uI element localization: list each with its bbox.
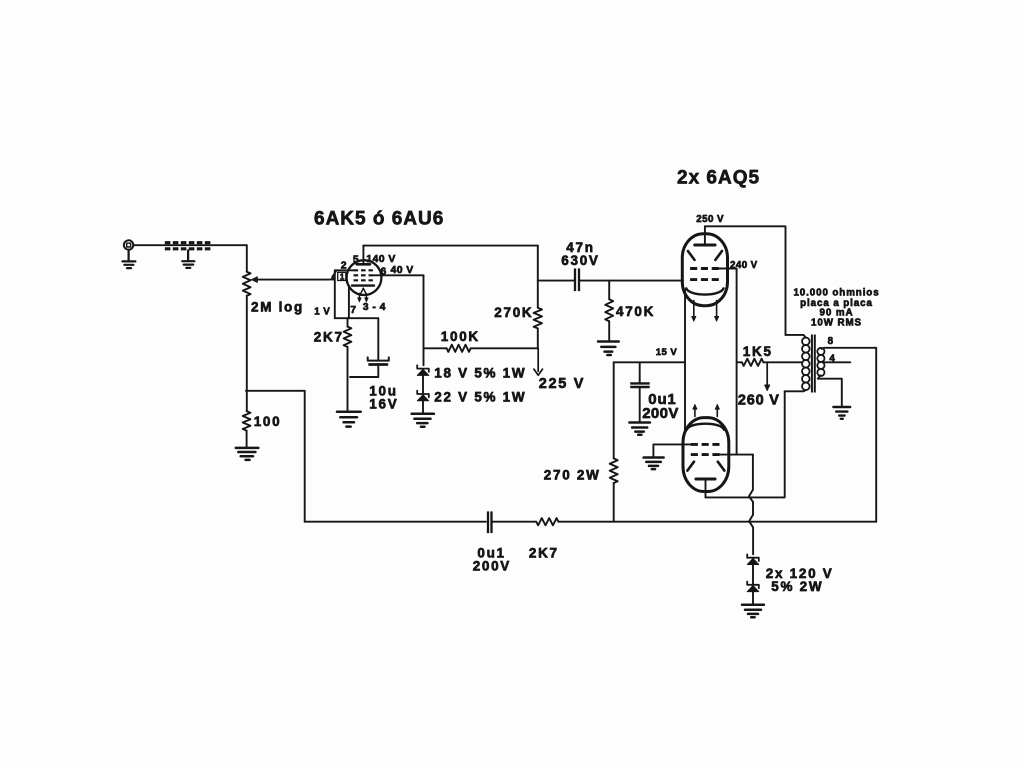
svg-text:100: 100 [254,414,282,429]
V3 cathode arc [687,424,724,430]
V2 control grid (dashed) [690,278,719,281]
T1 secondary bottom lead [818,375,842,405]
shielded cable (dashed shield) [165,243,212,249]
svg-text:10W RMS: 10W RMS [811,318,862,329]
V2 screen grid (dashed) [690,267,719,270]
V3 screen wire [720,454,753,456]
screen zener line with crossover jogs [749,455,753,555]
10u top lead [377,318,379,360]
node junction wire to bus corner [246,390,305,392]
ground (cable shield) [182,250,194,268]
ground (V3 grid) [644,458,664,470]
svg-text:225 V: 225 V [539,376,585,392]
wire to potentiometer top [246,245,248,272]
T1 secondary 4-ohm tap [823,361,851,363]
feedback wire from 8-ohm tap [875,348,877,522]
wire pin2 down to cathode node [334,270,336,318]
wire pot bottom down [246,296,248,411]
V3 grid wire to ground [653,444,690,456]
svg-text:8: 8 [828,336,834,347]
wire 2K7 to ground [347,347,349,411]
resistor 270K [534,308,542,329]
T1 secondary 8-ohm lead [822,348,877,349]
svg-text:5: 5 [353,254,359,266]
wire plate to 270K node [363,245,537,247]
V3 plate bar [696,478,715,481]
V3 screen grid (dashed) [691,453,720,456]
tube V2 6AQ5 upper envelope [682,234,727,306]
T1 secondary winding [817,348,824,376]
V3 beam plates [687,462,724,471]
wire zener to ground [752,592,754,604]
resistor 2K7 (cathode) [344,327,352,347]
wire 240V screen line down [736,269,738,455]
T1 core [812,335,815,393]
svg-text:250 V: 250 V [696,214,724,225]
svg-text:10.000 ohmnios: 10.000 ohmnios [793,288,879,299]
wire between zeners [422,375,424,393]
wire 47n to grid of upper 6AQ5 [580,280,683,282]
svg-text:1K5: 1K5 [743,344,773,359]
V1 heater pin arrows 3-4 [358,294,369,303]
ground (input jack) [122,250,135,268]
svg-text:270 2W: 270 2W [544,468,601,483]
svg-text:200V: 200V [642,405,679,422]
zener 120 V lower [747,582,759,592]
capacitor 10u 16V top plate [368,357,389,360]
svg-text:6AK5 ó 6AU6: 6AK5 ó 6AU6 [314,209,444,230]
svg-text:2K7: 2K7 [529,546,559,561]
svg-text:2x 6AQ5: 2x 6AQ5 [677,168,760,189]
wire between 120V zeners [752,565,754,585]
V1 plate lead pin 5 [362,246,364,265]
svg-text:270K: 270K [494,305,533,320]
V3 plate lead [705,479,707,497]
V3 control grid (dashed) [691,443,720,446]
270 2W to bus [613,483,615,522]
V1 heater chevron [360,288,367,295]
ground (470K) [598,342,619,356]
resistor 470K [605,299,613,321]
svg-text:100K: 100K [441,329,480,344]
270K bottom lead [537,328,539,348]
wire 1K5 to primary centre tap [763,361,802,363]
V2 cathode arc [686,288,723,294]
tube V1 6AK5 envelope [347,260,382,295]
svg-text:3 - 4: 3 - 4 [363,301,386,313]
10u bottom lead [350,366,378,377]
V2 plate lead [704,226,706,245]
capacitor 0u1 200V (cathode) top lead [639,362,641,382]
wire input to pot [133,244,247,246]
wire plate node down to 270K [537,246,539,308]
input jack J1 [124,240,133,249]
arrow 260 V supply [765,362,770,390]
svg-text:5% 2W: 5% 2W [771,579,823,594]
resistor 1K5 [742,359,764,366]
T1 primary winding [802,338,810,391]
ground (zener stack) [412,414,434,427]
svg-text:630V: 630V [561,253,599,268]
capacitor 0u1 200V (cathode) plates [630,383,650,387]
svg-text:2: 2 [341,259,347,271]
V1 grid rows (dashed) [354,270,373,280]
svg-text:40 V: 40 V [391,264,414,276]
V2 screen lead to 240V line [719,268,737,270]
capacitor 0u1 200V (feedback) [488,511,492,533]
470K top lead [608,281,610,300]
grid arrow into pin 1 [330,272,336,281]
V1 cathode lead pin 7 [348,286,350,319]
bus wire 2K7 to right end [558,521,876,523]
wire zener to ground [422,401,424,413]
svg-text:260 V: 260 V [738,392,780,408]
wire V3 plate to transformer primary bottom [706,391,785,497]
zener 18 V 5% 1W [417,365,429,375]
ground (120V zeners) [742,605,764,618]
svg-text:200V: 200V [473,559,511,574]
capacitor 47n 630V [575,268,579,291]
resistor 270 2W lead [613,362,615,458]
V2 beam plates [688,251,722,260]
bus wire cap to 2K7 [492,521,536,523]
T1 primary top lead [786,335,806,338]
wire down to feedback bus [304,391,306,522]
V2 heater leads with arrows [692,301,719,322]
resistor 270 2W [610,458,618,483]
470K bottom lead [608,321,610,340]
V1 screen wire pin 6 [373,274,424,276]
svg-text:18 V 5% 1W: 18 V 5% 1W [434,365,526,380]
svg-text:2K7: 2K7 [314,330,344,345]
cathode node wire [335,317,379,319]
ground (cathode 0u1) [629,423,650,435]
100K leads [424,347,538,349]
V1 plate bar [357,263,370,266]
V1 pin 2 stub [335,269,354,271]
arrow 225 V supply [534,348,543,375]
V2/V3 cathode link wire [684,290,686,430]
zener 120 V upper [747,554,759,564]
V1 cathode bar [352,284,374,286]
potentiometer 2M log [243,272,251,296]
ground (2K7 cathode) [337,412,361,427]
wire 270K node to 47n [538,280,575,282]
resistor 2K7 (feedback) [536,518,558,525]
transformer T1 label [793,288,879,329]
ground (secondary) [833,407,850,419]
svg-text:22 V 5% 1W: 22 V 5% 1W [434,390,526,405]
svg-text:15 V: 15 V [656,347,678,358]
svg-text:4: 4 [829,354,835,365]
wire V2 plate to transformer primary top [705,226,786,335]
capacitor 10u 16V bottom plate [370,363,388,366]
resistor 100K [447,345,471,352]
resistor 1K5 lead [737,361,742,363]
svg-text:16V: 16V [369,396,398,411]
wiper arrow of 2M log [251,277,330,283]
feedback bus wire left [305,521,486,523]
svg-text:240 V: 240 V [730,260,758,271]
resistor 100 [243,411,251,431]
0u1 bottom lead [639,388,641,421]
svg-text:1: 1 [340,273,345,282]
V3 heater leads with arrows [693,404,720,416]
ground (resistor 100) [236,448,258,460]
svg-text:7: 7 [350,304,356,316]
wire 15V cathode node [614,361,685,363]
svg-text:1 V: 1 V [314,306,330,317]
svg-text:470K: 470K [616,304,655,319]
svg-text:2M log: 2M log [251,300,304,315]
T1 primary bottom lead [785,390,806,391]
tube V3 6AQ5 lower envelope [683,418,729,492]
V2 plate bar [695,244,715,247]
pin 1 box [338,272,346,280]
zener 22 V 5% 1W [417,391,429,401]
wire screen node down [423,275,425,365]
wire 100 to ground [246,431,248,447]
